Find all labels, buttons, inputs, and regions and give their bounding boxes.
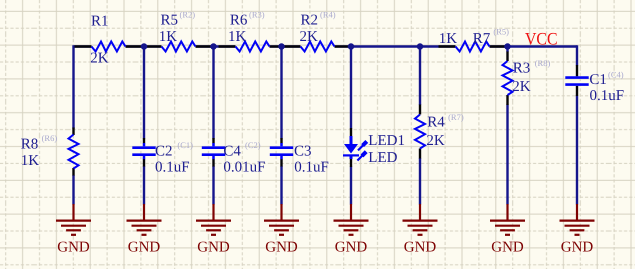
svg-text:C3: C3 [294, 144, 312, 160]
capacitor C4 pins [212, 138, 214, 143]
resistor R8 body [69, 135, 79, 169]
svg-text:(C1): (C1) [177, 140, 193, 150]
resistor R6 pins [219, 45, 236, 47]
svg-text:R2: R2 [301, 12, 319, 28]
wire rail between R6 and R2 [270, 45, 301, 47]
capacitor C2 pins [143, 138, 145, 143]
resistor R7 pins [439, 45, 456, 47]
resistor R2 body [301, 42, 335, 52]
resistor R3 body [503, 61, 513, 95]
svg-text:GND: GND [404, 239, 437, 255]
svg-text:GND: GND [491, 239, 524, 255]
LED1 body [343, 136, 367, 161]
svg-text:GND: GND [561, 239, 594, 255]
wire branch R3 [506, 47, 508, 53]
wire rail between R5 and R6 [196, 45, 236, 47]
svg-text:1K: 1K [21, 153, 40, 169]
svg-text:GND: GND [57, 239, 90, 255]
svg-text:(R7): (R7) [448, 112, 464, 122]
resistor R8 pins [72, 128, 74, 136]
svg-text:VCC: VCC [525, 28, 558, 48]
pins (black) [74, 47, 578, 176]
ground symbol 1 [56, 204, 91, 235]
capacitor C1 pins [576, 65, 578, 76]
ground symbol 8 [560, 204, 595, 235]
resistor R4 pins [419, 105, 421, 115]
svg-text:1K: 1K [439, 31, 458, 47]
svg-text:R7: R7 [473, 31, 491, 47]
wire branch C1 [576, 45, 578, 65]
svg-text:C4: C4 [223, 144, 241, 160]
junction node at LED1 [348, 43, 355, 50]
svg-text:GND: GND [265, 239, 298, 255]
wire rail between R2 and R7 [335, 45, 456, 47]
wire top rail left segment [74, 45, 578, 204]
svg-text:1K: 1K [159, 29, 178, 45]
svg-text:(C2): (C2) [245, 140, 261, 150]
capacitor C3 pins [280, 138, 282, 143]
resistor R1 body [92, 42, 126, 52]
resistor R1 pins [75, 45, 92, 47]
svg-text:R4: R4 [427, 115, 445, 131]
svg-text:(R6): (R6) [42, 133, 58, 143]
capacitor C4 body [212, 143, 215, 159]
junction node at R4 [417, 43, 424, 50]
junction node at C3 [278, 43, 285, 50]
svg-text:(R4): (R4) [320, 10, 336, 20]
svg-text:R1: R1 [91, 14, 109, 30]
LED1 pins [350, 128, 352, 137]
ground symbol 2 [127, 204, 162, 235]
wire branch LED1 [350, 47, 352, 129]
svg-text:R5: R5 [161, 12, 179, 28]
svg-text:(R3): (R3) [249, 10, 265, 20]
capacitor C1 body [565, 78, 588, 85]
resistor R7 body [456, 42, 490, 52]
resistor R5 pins [146, 45, 162, 47]
wire branch R4 [419, 47, 421, 106]
resistor R3 pins [506, 52, 508, 62]
svg-text:0.01uF: 0.01uF [223, 159, 265, 175]
svg-text:1K: 1K [228, 29, 247, 45]
svg-text:0.1uF: 0.1uF [590, 88, 625, 104]
svg-text:2K: 2K [300, 29, 319, 45]
wire rail from R7 to C1 corner [490, 45, 578, 47]
ground symbol 3 [196, 204, 231, 235]
ground symbol 4 [264, 204, 299, 235]
wire rail between R1 and R5 [126, 45, 162, 47]
junction node at C2 [141, 43, 148, 50]
svg-text:(C4): (C4) [608, 70, 624, 80]
wire branch C3 [280, 47, 282, 139]
svg-text:0.1uF: 0.1uF [294, 159, 329, 175]
svg-text:2K: 2K [426, 133, 445, 149]
svg-text:R3: R3 [513, 61, 531, 77]
svg-text:2K: 2K [512, 79, 531, 95]
capacitor C2 body [143, 143, 146, 159]
svg-text:0.1uF: 0.1uF [155, 159, 190, 175]
junction node at R3 [504, 43, 511, 50]
ground symbol 7 [490, 204, 525, 235]
svg-text:R8: R8 [21, 136, 39, 152]
ground symbol 6 [403, 204, 438, 235]
svg-text:(R2): (R2) [180, 10, 196, 20]
svg-text:GND: GND [335, 239, 368, 255]
resistor R4 body [415, 115, 425, 149]
resistor R5 body [162, 42, 196, 52]
svg-text:LED: LED [368, 150, 397, 166]
svg-text:C2: C2 [155, 144, 173, 160]
wire branch C2 [143, 47, 145, 139]
wire branch R8 [72, 45, 74, 128]
svg-text:GND: GND [197, 239, 230, 255]
resistor R6 body [236, 42, 270, 52]
svg-text:2K: 2K [90, 51, 109, 67]
svg-text:GND: GND [128, 239, 161, 255]
junction node at C4 [210, 43, 217, 50]
resistor R2 pins [283, 45, 301, 47]
svg-text:LED1: LED1 [368, 133, 405, 149]
svg-text:C1: C1 [589, 72, 607, 88]
svg-text:(R8): (R8) [535, 58, 551, 68]
capacitor C3 body [280, 143, 283, 159]
svg-text:R6: R6 [230, 12, 248, 28]
svg-text:(R5): (R5) [493, 26, 509, 36]
ground symbol 5 [334, 204, 369, 235]
wire branch C4 [212, 47, 214, 139]
